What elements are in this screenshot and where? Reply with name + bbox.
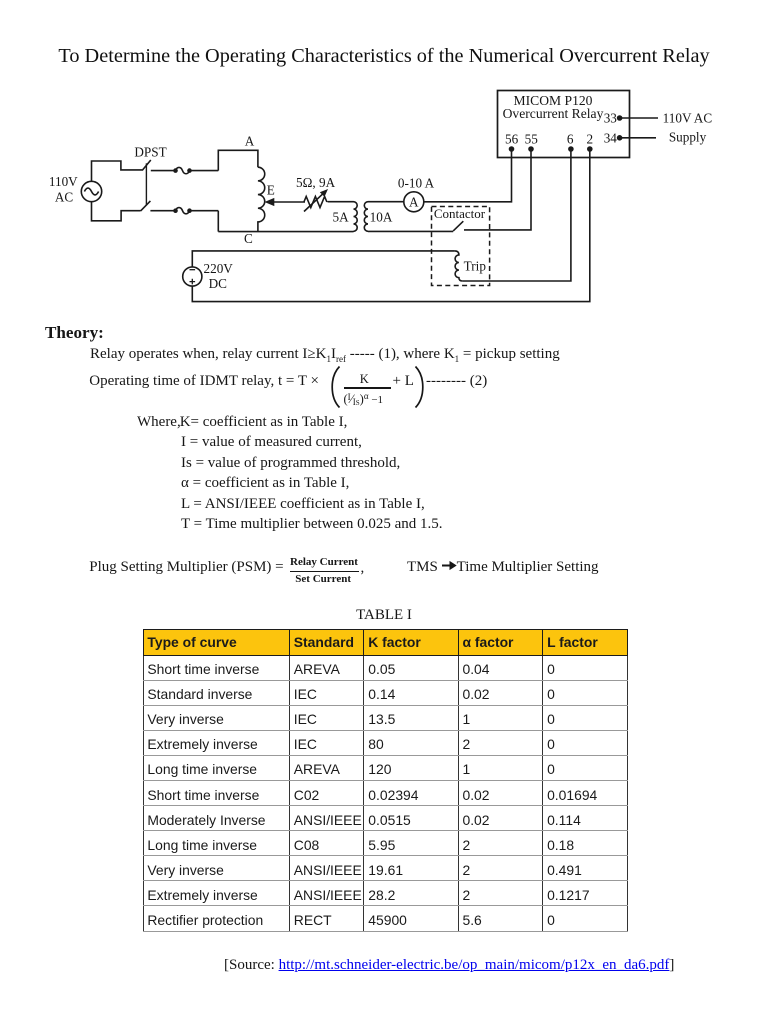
AC source 110V AC [81, 181, 101, 201]
source line [224, 957, 674, 974]
title [0, 45, 768, 68]
svg-text:Contactor: Contactor [434, 206, 486, 221]
bottom rail C to transformer [218, 231, 353, 233]
fuse F1 [176, 167, 190, 173]
terminal 33 dot and wire [617, 115, 623, 121]
svg-text:6: 6 [567, 131, 574, 146]
svg-text:110V AC: 110V AC [663, 111, 713, 126]
relay U1 MICOM P120 enclosure [498, 91, 630, 158]
wire pole1 to fuse F1 [151, 170, 176, 172]
terminal 2 dot [587, 146, 593, 152]
contactor contact blade [453, 221, 463, 231]
wire ammeter to relay terminal 56 [424, 149, 511, 202]
wire fuse F1 to variac [190, 170, 219, 172]
DPST mechanical link [145, 163, 147, 205]
wire DC- rail to relay terminal 2 [192, 149, 590, 302]
rheostat arrow [304, 193, 324, 212]
svg-text:A: A [245, 134, 255, 149]
svg-text:220V: 220V [204, 261, 234, 276]
svg-text:0-10 A: 0-10 A [398, 175, 435, 190]
TABLE I caption [0, 607, 768, 624]
svg-text:C: C [244, 231, 253, 246]
autotransformer (variac) frame top [218, 150, 258, 170]
wire DC+ rail to trip coil [192, 251, 455, 267]
autotransformer coil A-C [258, 167, 265, 231]
DPST switch pole 1 blade [142, 160, 151, 171]
svg-text:AC: AC [55, 190, 74, 205]
theory heading [45, 324, 104, 341]
svg-text:5A: 5A [333, 210, 350, 225]
terminal 56 dot [509, 146, 515, 152]
DC source 220V [183, 267, 202, 286]
svg-text:E: E [267, 183, 275, 198]
wire pole2 to fuse F2 [150, 210, 175, 212]
equation 2 [89, 374, 319, 389]
svg-text:34: 34 [604, 130, 618, 145]
contactor dashed enclosure [432, 207, 490, 286]
theory line 1 [90, 347, 560, 367]
terminal 34 dot and wire [617, 135, 623, 141]
svg-text:A: A [409, 194, 419, 209]
autotransformer (variac) frame bottom [217, 211, 219, 232]
svg-text:5Ω, 9A: 5Ω, 9A [296, 175, 336, 190]
terminal 6 dot [568, 146, 574, 152]
wire fuse F2 to variac [190, 210, 219, 212]
PSM line [89, 560, 283, 575]
data table [143, 629, 628, 932]
svg-text:DC: DC [209, 276, 228, 291]
svg-text:110V: 110V [49, 174, 78, 189]
wire top rail from AC source to DPST [92, 161, 143, 181]
variac wiper E arrow [272, 201, 305, 203]
transformer T1 primary winding 5A [354, 202, 358, 232]
wire trip coil to relay terminal 6 [463, 149, 571, 281]
wire bottom rail from AC source to DPST [92, 202, 141, 221]
wire secondary bottom to contactor contact [368, 230, 453, 232]
terminal 55 dot [528, 146, 534, 152]
svg-text:10A: 10A [370, 210, 393, 225]
fuse F2 [176, 208, 190, 214]
svg-text:Supply: Supply [669, 129, 707, 144]
circuit schematic SVG [0, 0, 768, 330]
transformer T1 secondary winding 10A [364, 202, 368, 232]
svg-text:Trip: Trip [464, 259, 487, 274]
svg-text:56: 56 [505, 131, 519, 146]
svg-text:2: 2 [587, 131, 594, 146]
svg-text:33: 33 [604, 111, 618, 126]
svg-text:55: 55 [525, 131, 539, 146]
wire contactor contact to relay terminal 55 [464, 149, 531, 230]
trip coil [455, 251, 463, 281]
svg-text:Overcurrent Relay: Overcurrent Relay [503, 106, 604, 121]
rheostat 5ohm 9A zigzag [304, 197, 327, 208]
DPST switch pole 2 blade [141, 201, 151, 211]
wire rheostat to transformer primary [328, 201, 354, 203]
wire secondary top to ammeter [368, 201, 403, 203]
svg-text:DPST: DPST [134, 145, 166, 160]
ammeter 0-10 A [404, 192, 424, 212]
where lines [137, 415, 347, 430]
